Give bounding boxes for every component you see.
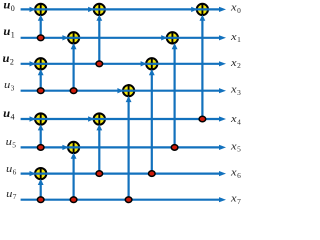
junction dot on u5 at x=175 xyxy=(171,145,178,151)
svg-text:u: u xyxy=(4,80,10,91)
svg-text:1: 1 xyxy=(237,35,241,44)
wire row u4 horizontal xyxy=(21,116,226,121)
junction dot on u3 at x=41 xyxy=(37,88,44,94)
svg-text:6: 6 xyxy=(13,168,17,177)
svg-text:5: 5 xyxy=(237,145,241,154)
wire vertical x=129 from junction on u7 up to XOR on u3 xyxy=(126,96,132,200)
wire row u7 horizontal xyxy=(21,197,226,202)
wire row u2 horizontal xyxy=(21,61,226,66)
svg-text:u: u xyxy=(3,0,10,12)
svg-text:x: x xyxy=(230,3,237,14)
XOR gate stage 3 on row u1 xyxy=(167,32,179,44)
svg-text:u: u xyxy=(6,137,12,148)
svg-text:x: x xyxy=(230,85,237,96)
wire vertical x=99 from junction on u6 up to XOR on u4 xyxy=(96,124,102,173)
junction dot on u6 at x=152 xyxy=(149,171,156,177)
svg-text:u: u xyxy=(6,189,12,200)
junction dot on u6 at x=99 xyxy=(96,171,103,177)
svg-text:u: u xyxy=(3,106,10,120)
wire row u3 horizontal xyxy=(21,88,226,93)
svg-text:4: 4 xyxy=(11,112,15,121)
svg-text:2: 2 xyxy=(237,61,241,70)
junction dot on u1 at x=41 xyxy=(37,35,44,41)
svg-text:x: x xyxy=(230,32,237,43)
svg-text:u: u xyxy=(6,164,12,175)
svg-text:4: 4 xyxy=(237,117,241,126)
junction dot on u3 at x=74 xyxy=(70,88,77,94)
svg-text:3: 3 xyxy=(237,88,241,97)
svg-text:x: x xyxy=(230,168,237,179)
wire vertical x=41 from junction on u3 up to XOR on u2 xyxy=(38,69,44,91)
junction dot on u7 at x=129 xyxy=(125,197,132,203)
wire vertical x=152 from junction on u6 up to XOR on u2 xyxy=(149,69,155,174)
XOR gate stage 2 on row u4 xyxy=(93,113,105,125)
junction dot on u4 at x=202 xyxy=(199,116,206,122)
XOR gate stage 2 on row u0 xyxy=(93,4,105,16)
svg-text:7: 7 xyxy=(237,197,241,206)
XOR gate stage 1 on row u0 xyxy=(35,4,47,16)
wire row u0 horizontal xyxy=(21,7,226,12)
svg-text:x: x xyxy=(230,194,237,205)
wire row u6 horizontal xyxy=(21,171,226,176)
junction dot on u2 at x=99 xyxy=(96,61,103,67)
XOR gate stage 3 on row u3 xyxy=(123,85,135,97)
junction dot on u7 at x=74 xyxy=(70,197,77,203)
svg-text:2: 2 xyxy=(10,57,14,66)
wire vertical x=41 from junction on u5 up to XOR on u4 xyxy=(38,124,44,147)
XOR gate stage 2 on row u1 xyxy=(68,32,80,44)
svg-text:6: 6 xyxy=(237,171,241,180)
svg-text:1: 1 xyxy=(11,31,15,40)
wire vertical x=99 from junction on u2 up to XOR on u0 xyxy=(96,15,102,64)
wire row u5 horizontal xyxy=(21,145,226,150)
junction dot on u7 at x=41 xyxy=(37,197,44,203)
XOR gate stage 1 on row u4 xyxy=(35,113,47,125)
wire vertical x=74 from junction on u7 up to XOR on u5 xyxy=(71,153,77,200)
XOR gate stage 3 on row u2 xyxy=(146,58,158,70)
XOR gate stage 1 on row u6 xyxy=(35,168,47,180)
svg-text:x: x xyxy=(230,141,237,152)
XOR gate stage 3 on row u0 xyxy=(197,4,209,16)
svg-text:x: x xyxy=(230,58,237,69)
wire vertical x=41 from junction on u7 up to XOR on u6 xyxy=(38,179,44,200)
wire vertical x=74 from junction on u3 up to XOR on u1 xyxy=(71,43,77,91)
junction dot on u5 at x=41 xyxy=(37,145,44,151)
wire row u1 horizontal xyxy=(21,35,226,40)
svg-text:u: u xyxy=(3,24,10,38)
svg-text:u: u xyxy=(3,51,10,65)
wire vertical x=175 from junction on u5 up to XOR on u1 xyxy=(172,43,178,147)
svg-text:0: 0 xyxy=(237,6,241,15)
svg-text:x: x xyxy=(230,114,237,125)
XOR gate stage 1 on row u2 xyxy=(35,58,47,70)
svg-text:7: 7 xyxy=(13,192,17,201)
wire vertical x=41 from junction on u1 up to XOR on u0 xyxy=(38,15,44,38)
svg-text:5: 5 xyxy=(12,141,16,150)
XOR gate stage 2 on row u5 xyxy=(68,142,80,154)
wire vertical x=202 from junction on u4 up to XOR on u0 xyxy=(200,15,206,119)
svg-text:0: 0 xyxy=(11,4,15,13)
svg-text:3: 3 xyxy=(11,83,15,92)
